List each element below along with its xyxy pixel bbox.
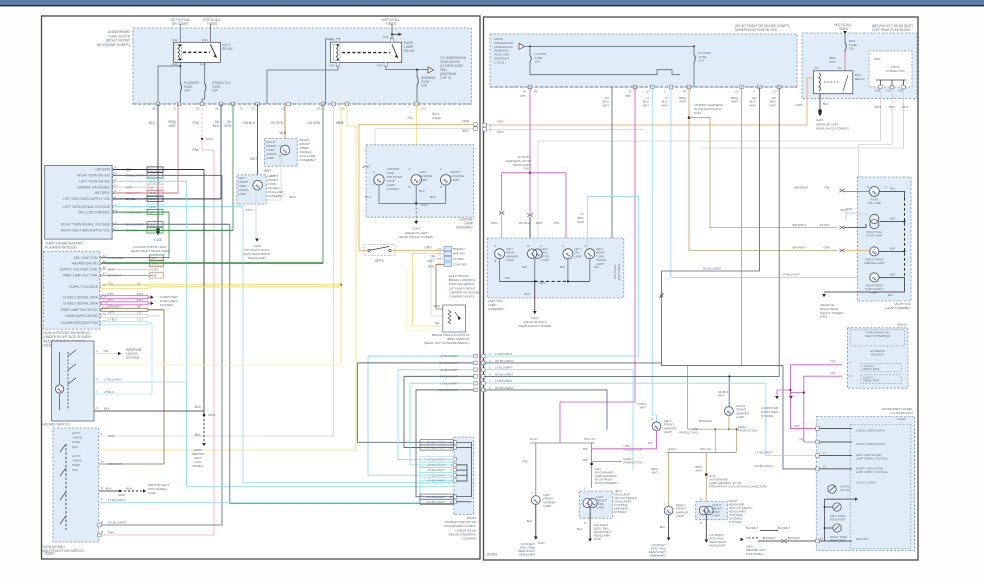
svg-text:WHT: WHT (889, 105, 896, 109)
svg-text:BLK: BLK (560, 265, 566, 269)
svg-text:1740: 1740 (149, 191, 156, 195)
svg-text:ORG: ORG (462, 120, 470, 124)
svg-text:G: G (885, 185, 887, 189)
fuse DIMMING FUSE 10A (416, 75, 418, 77)
wire BRN WHT below right marker with production jogs (728, 416, 730, 430)
svg-text:C: C (700, 497, 702, 501)
svg-text:ASSEMBLY: ASSEMBLY (456, 226, 474, 230)
svg-text:BLK: BLK (290, 195, 297, 199)
svg-text:BLK: BLK (365, 195, 372, 199)
lamp box LEFT TAIL LAMP ASSEMBLY (487, 238, 624, 298)
IPC left turn indicator (833, 503, 841, 511)
svg-text:BLK: BLK (888, 293, 893, 297)
svg-text:REAR SHOCK TOWER): REAR SHOCK TOWER) (816, 126, 849, 130)
svg-text:CLASS 2 SERIAL DATA: CLASS 2 SERIAL DATA (63, 295, 99, 299)
wire DK ORN to right front turn signal lamp (284, 104, 286, 144)
svg-text:PPL: PPL (825, 186, 831, 190)
svg-text:K01: K01 (329, 38, 335, 42)
wires BLK tail lamps to ground G420 (499, 259, 501, 282)
wire DK GRN long to lamp area (102, 104, 323, 263)
svg-text:BLK: BLK (890, 273, 895, 277)
svg-text:BPP SIG: BPP SIG (453, 252, 466, 256)
svg-text:LAMP: LAMP (543, 504, 551, 508)
svg-text:BPPS: BPPS (375, 259, 384, 263)
svg-text:BRN/WHT: BRN/WHT (793, 223, 807, 227)
lamp RIGHT LICENSE LAMP (441, 175, 451, 185)
svg-text:1807: 1807 (137, 298, 144, 302)
svg-text:WHT: WHT (462, 129, 469, 133)
svg-text:LAMP: LAMP (574, 254, 582, 258)
svg-text:2L: 2L (240, 107, 244, 111)
relay PARK LAMP RELAY (330, 42, 401, 62)
svg-text:CLASS 2 (GNA): CLASS 2 (GNA) (856, 480, 876, 484)
svg-text:1390: 1390 (152, 268, 159, 272)
svg-text:BLU: BLU (213, 124, 220, 128)
svg-text:RIGHT TURN SIG IND: RIGHT TURN SIG IND (856, 467, 883, 471)
svg-text:SYSTEM: SYSTEM (160, 303, 173, 307)
svg-text:YEL: YEL (103, 349, 109, 353)
svg-text:RADIO: RADIO (897, 323, 907, 327)
IPC ground wire (819, 540, 852, 542)
svg-text:WHT: WHT (245, 208, 252, 212)
wire WHT from page 2 to CHMSL (375, 129, 476, 171)
lamp LEFT LICENSE LAMP (411, 175, 421, 185)
svg-text:LT BLU/WHT: LT BLU/WHT (126, 205, 143, 209)
svg-text:PRODUCTION: PRODUCTION (679, 431, 698, 435)
svg-text:G402: G402 (412, 227, 420, 231)
svg-text:• HEAD: • HEAD (72, 436, 83, 440)
multifunction switch row K BLK S208 (99, 490, 120, 492)
svg-text:WHT: WHT (108, 268, 115, 272)
svg-text:10A: 10A (535, 60, 540, 64)
svg-text:B: B (494, 259, 496, 263)
svg-text:PPL: PPL (648, 441, 654, 445)
wire BRN/WHT with S410 distribution (689, 87, 837, 251)
svg-text:LT BLU/WHT: LT BLU/WHT (755, 451, 773, 455)
svg-text:A: A (373, 170, 375, 174)
front lamps W HO bar right (667, 452, 736, 454)
module EBCM pins (444, 247, 452, 251)
svg-text:YEL: YEL (407, 116, 413, 120)
svg-text:LT BLU/WHT: LT BLU/WHT (440, 354, 458, 358)
svg-text:WHT: WHT (718, 394, 725, 398)
svg-text:PPL: PPL (831, 371, 837, 375)
svg-text:44: 44 (523, 90, 527, 94)
lamp LEFT REAR TURN SIGNAL LAMP (585, 249, 595, 259)
svg-text:BLK: BLK (660, 525, 665, 529)
lamp RIGHT TAIL STOP LAMP (870, 214, 879, 223)
svg-text:WHT: WHT (536, 221, 543, 225)
svg-text:BLK: BLK (527, 519, 532, 523)
svg-text:WHT: WHT (169, 124, 176, 128)
svg-text:E365: E365 (149, 229, 156, 233)
svg-text:PPL: PPL (795, 424, 801, 428)
svg-text:PPL: PPL (520, 94, 526, 98)
svg-text:310: 310 (149, 210, 154, 214)
wire WHT EBCM to BPP sensor (431, 259, 444, 316)
svg-text:BLK: BLK (890, 187, 895, 191)
svg-text:COLUMN): COLUMN) (462, 537, 476, 541)
svg-text:WHT: WHT (126, 185, 133, 189)
svg-text:LEFT REAR FUSE BLOCK: LEFT REAR FUSE BLOCK (872, 28, 911, 32)
svg-text:W HO: W HO (530, 437, 539, 441)
svg-text:2K: 2K (341, 107, 345, 111)
left diagram panel frame (42, 16, 481, 559)
svg-text:1717: 1717 (137, 318, 144, 322)
svg-text:DK BLU/WHT: DK BLU/WHT (108, 521, 127, 525)
wire module C cyan down (187, 181, 455, 486)
svg-text:LAMP: LAMP (266, 156, 274, 160)
svg-text:DK BLU/WHT: DK BLU/WHT (126, 174, 144, 178)
svg-text:OFF: OFF (72, 468, 78, 472)
svg-text:SERIAL DATA: SERIAL DATA (863, 367, 880, 371)
svg-text:BLK: BLK (890, 247, 895, 251)
svg-text:WHT: WHT (264, 169, 271, 173)
wire DK BLU/WHT drop into tail lamp box (611, 87, 613, 245)
module wire rows with code boxes (113, 169, 204, 171)
svg-text:K: K (101, 486, 103, 490)
wire DK BLU/WHT long drop right (662, 87, 760, 364)
svg-text:BLK: BLK (126, 168, 132, 172)
svg-text:HEADLAMP): HEADLAMP) (519, 553, 535, 557)
svg-text:1314: 1314 (149, 205, 156, 209)
svg-text:COMPARTMENT): COMPARTMENT) (449, 295, 474, 299)
wire right park lamp ground (705, 515, 707, 541)
wire DK BLU to flasher module (114, 104, 221, 199)
svg-text:308: 308 (152, 274, 157, 278)
svg-text:DK BLU: DK BLU (820, 223, 830, 227)
svg-text:LEFT TURN SIGNAL VOLTAGE: LEFT TURN SIGNAL VOLTAGE (63, 205, 111, 209)
svg-text:GROUND: GROUND (95, 168, 110, 172)
svg-text:PARK LAMP RLY CTRL: PARK LAMP RLY CTRL (63, 274, 98, 278)
svg-text:YEL: YEL (430, 254, 436, 258)
svg-text:WHT: WHT (427, 259, 434, 263)
svg-text:UNDERHOOD FUSE BLOCK: UNDERHOOD FUSE BLOCK (735, 28, 778, 32)
svg-text:HAZARD SWITCH: HAZARD SWITCH (42, 423, 70, 427)
svg-text:FLASHER MODULE: FLASHER MODULE (45, 246, 77, 250)
svg-text:DK BLU: DK BLU (243, 121, 255, 125)
wire BRN WHT to right front marker lamp lower (668, 453, 670, 507)
pale yellow loop near EBCM (407, 268, 427, 331)
svg-text:2F: 2F (317, 107, 321, 111)
fuse STMD/CTLS FUSE 10A (204, 82, 206, 84)
fuse block left rear (802, 33, 917, 99)
svg-text:(NEAR TOP OF BRAKE PEDAL): (NEAR TOP OF BRAKE PEDAL) (424, 341, 469, 345)
svg-text:CLASS 2 SERIAL DATA: CLASS 2 SERIAL DATA (63, 302, 99, 306)
svg-text:LT BLU: LT BLU (104, 390, 114, 394)
svg-text:LT BLU/WHT: LT BLU/WHT (108, 498, 126, 502)
svg-text:LT BLU/WHT: LT BLU/WHT (495, 366, 513, 370)
svg-text:LAMP: LAMP (676, 514, 684, 518)
lamp RIGHT FRONT PARK LAMP in headlamp (696, 502, 728, 520)
svg-text:HEADLAMP): HEADLAMP) (709, 544, 725, 548)
svg-text:307: 307 (137, 305, 142, 309)
svg-text:B: B (527, 244, 529, 248)
svg-text:WHT: WHT (363, 165, 370, 169)
wire turn lamp black (879, 276, 905, 278)
wire module B slate down to multifunction switch (99, 175, 222, 525)
svg-text:STOP LAMP: STOP LAMP (866, 234, 882, 238)
svg-text:K2C: K2C (886, 89, 891, 93)
wires PPL to IPC class 2 (790, 390, 827, 429)
svg-text:BLK/WHT: BLK/WHT (763, 536, 776, 540)
svg-text:1400: 1400 (152, 262, 159, 266)
svg-text:310: 310 (152, 256, 157, 260)
svg-text:BLK: BLK (126, 487, 132, 491)
svg-text:C106: C106 (154, 238, 162, 242)
wire BRN EBCM to BPP sensor (436, 264, 444, 309)
svg-text:PARK LAMP SW ON SIG: PARK LAMP SW ON SIG (61, 308, 99, 312)
wire PNK (201, 104, 203, 139)
svg-text:2A: 2A (215, 107, 219, 111)
wire left front turn lamp ground to G106b (255, 190, 257, 238)
svg-text:BRN: BRN (434, 304, 440, 308)
svg-text:(NOT USED): (NOT USED) (617, 264, 621, 281)
svg-text:B: B (440, 185, 442, 189)
wire DK BLU to left front turn signal lamp (257, 104, 259, 180)
svg-text:23: 23 (820, 537, 823, 541)
black bus right tail lamps (904, 198, 906, 277)
wire PPL into left tail lamp (565, 223, 567, 248)
inline connector to ORG left rear marker (499, 211, 502, 214)
svg-text:LT BLU/WHT: LT BLU/WHT (440, 381, 458, 385)
six wire bundle to page 2 (368, 355, 476, 357)
svg-text:WHT: WHT (108, 311, 115, 315)
svg-text:LAMP SUPPLY VOLTAGE: LAMP SUPPLY VOLTAGE (856, 470, 888, 474)
wire WHT from page 1 into right panel (484, 128, 645, 130)
svg-text:AUTO: AUTO (72, 431, 81, 435)
svg-text:RELAY: RELAY (855, 77, 865, 81)
svg-text:1319: 1319 (149, 222, 156, 226)
lamp LEFT FRONT PARK LAMP in headlamp (580, 491, 613, 518)
IPC pins (816, 427, 819, 431)
svg-text:R42: R42 (172, 38, 178, 42)
svg-text:2B: 2B (152, 107, 156, 111)
lamp RIGHT FRONT MARKER LAMP lower (664, 506, 673, 515)
svg-text:A: A (584, 244, 586, 248)
module TURN SIGNAL/HAZARD FLASHER MODULE (45, 165, 112, 239)
svg-text:ORG: ORG (424, 246, 432, 250)
svg-text:LAMP: LAMP (713, 514, 721, 518)
svg-text:R44: R44 (202, 38, 208, 42)
svg-text:PPL: PPL (831, 360, 837, 364)
lamp LEFT TAIL LAMP (563, 249, 573, 259)
IPC lights on indicator (828, 485, 836, 493)
wire dimming feed across box (525, 45, 694, 47)
svg-text:WHT: WHT (279, 131, 286, 135)
svg-text:LT BLU/WHT: LT BLU/WHT (104, 378, 122, 382)
DIM wire rows top (101, 257, 152, 259)
svg-text:BLK: BLK (505, 276, 511, 280)
svg-text:LAMP: LAMP (419, 178, 427, 182)
svg-text:DK BLU/WHT: DK BLU/WHT (126, 222, 144, 226)
svg-text:350: 350 (149, 168, 154, 172)
svg-text:BLK: BLK (195, 405, 202, 409)
svg-text:C1: C1 (438, 247, 442, 251)
svg-text:LT BLU/WHT: LT BLU/WHT (126, 180, 143, 184)
svg-text:LT GRN/BLK: LT GRN/BLK (108, 256, 124, 260)
lamp box RIGHT TAIL LAMP ASSEMBLY (858, 177, 912, 301)
wire relay ICN1 to flasher fuse and pins (158, 62, 180, 104)
wire LT BLU/WHT drop to left rear turn lamp (652, 87, 656, 422)
right underhood fuse block box (490, 34, 797, 87)
svg-text:DK GRN: DK GRN (308, 121, 321, 125)
wire YEL via right side down (100, 104, 356, 450)
off-page arrow TO UNDERHOOD FUSE BLOCK (428, 67, 434, 73)
inline connector on DK BLU/WHT (660, 293, 664, 298)
svg-text:CLUSTER (IPC): CLUSTER (IPC) (890, 411, 913, 415)
svg-text:WHT: WHT (602, 103, 609, 107)
svg-text:S208: S208 (118, 493, 125, 497)
wires WHT from joint connector (538, 89, 881, 248)
lamp RIGHT TAIL LAMP (869, 186, 879, 196)
svg-text:SV REF: SV REF (453, 257, 464, 261)
front lamps W HO bar left (530, 442, 595, 444)
svg-text:BRN/WHT: BRN/WHT (793, 246, 807, 250)
module INSTRUMENT PANEL CLUSTER IPC (816, 417, 914, 551)
wire YEL to supply voltage row (340, 104, 342, 365)
bundle rows from page 1 left edge (482, 354, 485, 358)
svg-text:OFF: OFF (72, 445, 78, 449)
svg-text:W/O HO: W/O HO (700, 447, 712, 451)
wire BRN WHT S110 to right front park lamp (705, 453, 707, 507)
svg-text:LT BLU/WHT: LT BLU/WHT (782, 273, 800, 277)
hazard switch BLK row (94, 410, 204, 412)
svg-text:WHT: WHT (731, 100, 738, 104)
svg-text:2D: 2D (196, 107, 200, 111)
svg-text:DK ORN: DK ORN (126, 229, 137, 233)
svg-text:PRODUCTION: PRODUCTION (738, 429, 757, 433)
svg-text:W HO: W HO (669, 447, 678, 451)
svg-text:S417: S417 (524, 167, 531, 171)
wire fuses to pin row (179, 93, 181, 104)
svg-text:R2: R2 (838, 66, 842, 70)
svg-text:K03: K03 (377, 64, 383, 68)
svg-text:E363: E363 (149, 197, 156, 201)
right diagram panel frame (484, 17, 919, 560)
svg-text:HEADLAMPS ON SIG: HEADLAMPS ON SIG (65, 314, 98, 318)
wire PPL right branch with production jogs (591, 443, 593, 488)
svg-text:C: C (584, 487, 586, 491)
svg-text:A: A (540, 244, 542, 248)
svg-text:DK BLU: DK BLU (126, 197, 136, 201)
lamp RIGHT REAR TURN SIGNAL LAMP (870, 273, 879, 282)
lamp LEFT FRONT MARKER LAMP upper (652, 422, 661, 431)
wire DIM A9 LT BLU down to hazard switch (94, 323, 152, 394)
svg-text:1314: 1314 (149, 174, 156, 178)
svg-text:INDICATOR: INDICATOR (830, 539, 845, 543)
svg-text:S410: S410 (694, 111, 701, 115)
svg-text:ON IND: ON IND (840, 488, 850, 492)
svg-text:S420: S420 (539, 281, 546, 285)
lamp RIGHT FRONT MARKER LAMP upper (725, 407, 734, 416)
svg-text:HORN ASSEMBLY): HORN ASSEMBLY) (595, 481, 620, 485)
ground right tail lamps G401 (824, 291, 877, 293)
svg-text:WHT: WHT (250, 157, 257, 161)
svg-text:BLK: BLK (430, 195, 437, 199)
svg-text:R1: R1 (815, 66, 819, 70)
IPC internal row wires (819, 428, 852, 430)
svg-text:WHT: WHT (846, 207, 853, 211)
wire right front turn lamp ground (256, 155, 281, 200)
svg-text:ORG: ORG (796, 103, 804, 107)
svg-text:BLK: BLK (525, 292, 531, 296)
relay ICN 1 RELAY (174, 42, 221, 62)
svg-text:TAIL LAMP: TAIL LAMP (867, 201, 881, 205)
svg-text:SUPPLY VOLTAGE CTRL: SUPPLY VOLTAGE CTRL (60, 268, 98, 272)
svg-text:K02: K02 (329, 64, 335, 68)
bundle row destinations (484, 197, 639, 357)
module DASH INTEGRATION MODULE (43, 251, 99, 329)
svg-text:BKE RLY: BKE RLY (453, 247, 465, 251)
wire DK BLU/WHT drop 3 (729, 87, 779, 376)
svg-text:A: A (279, 144, 281, 148)
wire BRN/WHT PPL into right tail lamp (839, 189, 842, 192)
wire PPL below upper marker lamp (622, 431, 657, 449)
svg-text:W/O HO: W/O HO (584, 437, 596, 441)
svg-text:G106: G106 (594, 537, 601, 541)
svg-text:FROM RIGHT COOLING FAN CONNECT: FROM RIGHT COOLING FAN CONNECTOR) (709, 485, 766, 489)
svg-text:PPL: PPL (625, 94, 631, 98)
svg-text:10A: 10A (184, 89, 191, 93)
wire BRN/WHT ORG into right marker lamp (839, 249, 842, 252)
svg-text:SYSTEM: SYSTEM (761, 414, 774, 418)
svg-text:4B: 4B (534, 90, 538, 94)
svg-text:RELAY: RELAY (222, 47, 234, 51)
lamp CHMSL (374, 175, 384, 185)
svg-text:DK BLU/WHT: DK BLU/WHT (439, 375, 458, 379)
svg-text:SUPPLY VOLTAGE: SUPPLY VOLTAGE (69, 285, 99, 289)
svg-text:BLK: BLK (823, 102, 829, 106)
svg-text:A: A (562, 244, 564, 248)
svg-text:LAMP: LAMP (736, 415, 744, 419)
lamp LEFT TAIL STOP LAMP (527, 249, 537, 259)
svg-text:WHT: WHT (769, 103, 776, 107)
svg-text:G400: G400 (816, 118, 824, 122)
svg-text:F: F (101, 498, 103, 502)
svg-text:LAMP: LAMP (541, 258, 549, 262)
fuse RT PARK FUSE 10A (693, 46, 695, 53)
relay BUS RELAY (B+) (814, 71, 853, 94)
svg-text:C: C (373, 182, 375, 186)
lamp box CHMSL and license lamps (366, 145, 474, 217)
off-page triangle from dimming fuse (519, 43, 525, 49)
svg-text:BLK/WHT: BLK/WHT (778, 526, 790, 530)
svg-text:RIGHT TURN SW SIG: RIGHT TURN SW SIG (77, 174, 110, 178)
hazard switch LT BLU/WHT row (94, 381, 187, 383)
svg-text:R1: R1 (683, 90, 687, 94)
svg-text:BLK: BLK (419, 189, 426, 193)
svg-text:LOGIC: LOGIC (897, 417, 906, 421)
svg-text:1 OF 2): 1 OF 2) (494, 60, 504, 64)
fuse LT PARK FUSE 10A (529, 46, 531, 54)
fuse BUS FUSE 15A (843, 31, 847, 34)
svg-text:MARKER LAMP: MARKER LAMP (864, 261, 884, 265)
svg-text:WHT: WHT (749, 103, 756, 107)
wires license lamps ground (379, 185, 446, 203)
svg-text:BLK: BLK (149, 121, 156, 125)
wires park lamp relay (336, 39, 339, 43)
svg-text:111: 111 (149, 185, 154, 189)
svg-text:CLASS 2 SERIAL DATA: CLASS 2 SERIAL DATA (856, 429, 885, 433)
svg-text:PARK: PARK (72, 440, 80, 444)
lamp LEFT REAR MARKER LAMP (495, 249, 505, 259)
svg-text:10A: 10A (699, 59, 704, 63)
svg-text:BRN/WHT: BRN/WHT (699, 419, 712, 423)
svg-text:BLK: BLK (890, 217, 895, 221)
svg-text:C1: C1 (735, 90, 739, 94)
switch BPPS brake pedal (368, 249, 370, 251)
